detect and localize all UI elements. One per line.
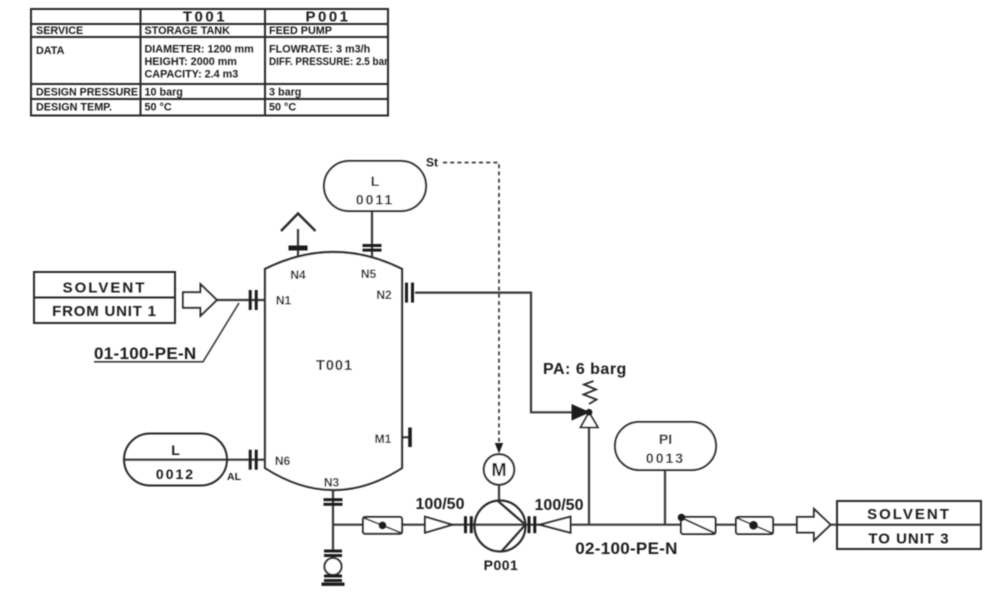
drain flange pair lower (324, 575, 342, 583)
svg-text:TO UNIT 3: TO UNIT 3 (868, 531, 949, 548)
svg-text:FLOWRATE: 3 m3/h: FLOWRATE: 3 m3/h (269, 44, 370, 56)
svg-text:N2: N2 (376, 288, 392, 302)
instrument L0012 (124, 434, 227, 486)
svg-text:DIFF. PRESSURE: 2.5 bar: DIFF. PRESSURE: 2.5 bar (269, 56, 389, 68)
pump suction flange (464, 516, 473, 533)
svg-text:L: L (171, 442, 180, 458)
flange N5 (363, 244, 382, 252)
svg-text:PA: 6 barg: PA: 6 barg (543, 361, 627, 378)
wire N2 to elbow (415, 293, 572, 413)
wire PSV tailpipe (588, 424, 590, 525)
relief valve PSV (572, 381, 598, 427)
svg-text:M: M (492, 460, 507, 480)
svg-text:L: L (371, 173, 380, 189)
off-page arrow out (797, 509, 831, 541)
svg-text:T001: T001 (183, 9, 227, 26)
box SOLVENT TO UNIT 3 (837, 501, 981, 549)
svg-text:DESIGN PRESSURE: DESIGN PRESSURE (36, 87, 138, 99)
vent chevron N4 (281, 214, 316, 232)
wire L0011 connector to N5 (371, 211, 373, 258)
svg-text:P001: P001 (305, 9, 350, 26)
svg-text:02-100-PE-N: 02-100-PE-N (575, 539, 678, 558)
svg-text:0012: 0012 (156, 466, 195, 482)
svg-text:0011: 0011 (356, 192, 394, 208)
svg-text:N1: N1 (276, 294, 292, 308)
svg-text:100/50: 100/50 (416, 496, 465, 513)
wire PI tap (664, 470, 666, 525)
svg-text:STORAGE TANK: STORAGE TANK (145, 25, 231, 37)
ball valve V2 (736, 517, 773, 534)
svg-text:100/50: 100/50 (535, 497, 584, 514)
drain end cap (322, 583, 345, 586)
ball valve V1 (tank outlet) (363, 517, 402, 534)
wire M1 stub (402, 436, 409, 438)
wire N3 down + drain (332, 488, 334, 550)
pump discharge flange (528, 516, 537, 533)
flange N4 (289, 246, 308, 251)
reducer 100/50 suction (425, 517, 452, 533)
instrument PI0013 (615, 422, 716, 470)
pump P001 (475, 501, 526, 552)
flange N3 (324, 498, 343, 506)
svg-text:10 barg: 10 barg (145, 87, 183, 99)
wire vent stem N4 (297, 229, 299, 259)
equipment data table (31, 9, 388, 116)
expander 100/50 discharge (540, 517, 571, 533)
svg-text:DATA: DATA (36, 45, 65, 57)
svg-text:T001: T001 (316, 358, 353, 374)
signal line St (dashed) (443, 163, 499, 444)
table body text (36, 25, 389, 114)
svg-text:3 barg: 3 barg (269, 87, 301, 99)
svg-text:FEED PUMP: FEED PUMP (269, 25, 332, 37)
manway M1 flange (408, 428, 412, 448)
leader line 01-100-PE-N (94, 303, 239, 362)
svg-text:N5: N5 (361, 267, 377, 281)
svg-text:N3: N3 (324, 476, 340, 490)
wire motor-pump link (498, 485, 500, 501)
box SOLVENT FROM UNIT 1 (34, 272, 175, 323)
svg-text:50 °C: 50 °C (145, 102, 172, 114)
svg-text:SERVICE: SERVICE (36, 25, 83, 37)
svg-text:M1: M1 (375, 432, 392, 446)
svg-text:SOLVENT: SOLVENT (867, 506, 951, 523)
svg-text:CAPACITY: 2.4 m3: CAPACITY: 2.4 m3 (145, 69, 239, 81)
tank T001 shell (265, 252, 402, 490)
svg-text:AL: AL (227, 471, 242, 483)
svg-text:01-100-PE-N: 01-100-PE-N (94, 344, 197, 363)
flange N1 (249, 290, 258, 310)
wire feed line into N1 (217, 299, 266, 301)
wire L0012 instrument line to N6 (124, 459, 265, 461)
svg-text:PI: PI (659, 431, 672, 447)
off-page arrow in (183, 284, 217, 316)
motor M (484, 454, 514, 484)
svg-text:St: St (426, 156, 438, 170)
wire suction/discharge main line (333, 524, 837, 526)
drain valve circle (325, 558, 342, 575)
svg-text:N4: N4 (290, 268, 306, 282)
svg-text:50 °C: 50 °C (269, 102, 296, 114)
drain flange pair upper (324, 550, 342, 558)
flange N6 (249, 450, 258, 470)
svg-text:0013: 0013 (646, 450, 685, 466)
svg-text:N6: N6 (275, 454, 291, 468)
svg-text:FROM UNIT 1: FROM UNIT 1 (52, 303, 157, 320)
svg-text:DESIGN TEMP.: DESIGN TEMP. (36, 102, 112, 114)
svg-text:SOLVENT: SOLVENT (63, 280, 147, 297)
signal arrowhead (495, 443, 503, 454)
instrument L0011 (324, 161, 426, 211)
svg-text:DIAMETER: 1200 mm: DIAMETER: 1200 mm (145, 44, 254, 56)
svg-text:HEIGHT: 2000 mm: HEIGHT: 2000 mm (145, 56, 237, 68)
flange N2 (405, 283, 414, 303)
check valve (678, 514, 716, 534)
svg-text:P001: P001 (484, 557, 519, 573)
